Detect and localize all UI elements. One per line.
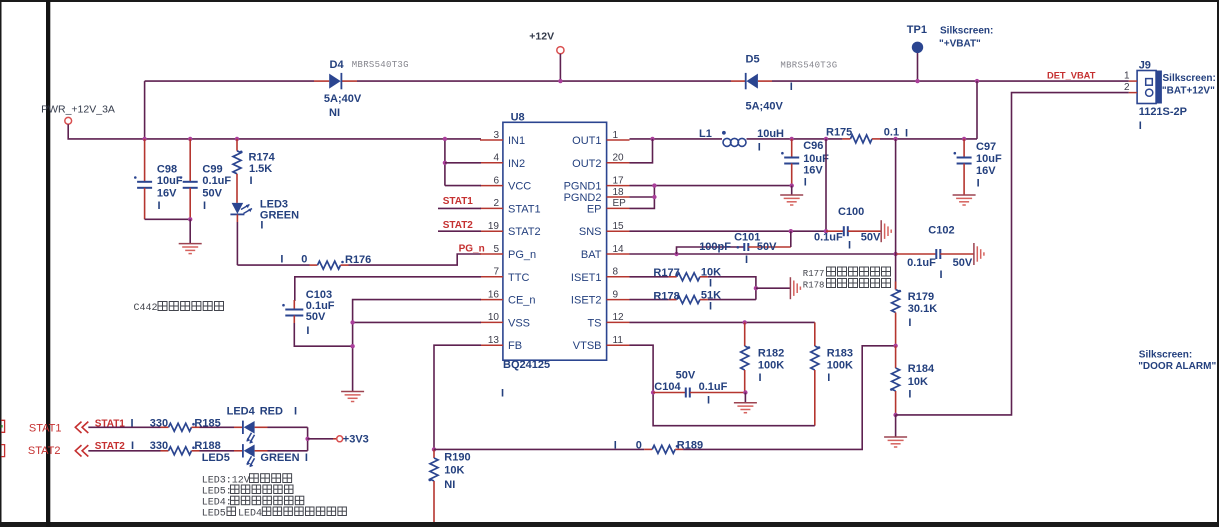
svg-text:13: 13 xyxy=(488,335,500,346)
resistor R179 xyxy=(892,282,902,346)
resistor R176 xyxy=(310,261,349,269)
svg-text:I: I xyxy=(977,178,980,190)
svg-text:TP1: TP1 xyxy=(907,24,927,36)
svg-text:R178: R178 xyxy=(803,281,825,291)
resistor R178 xyxy=(669,295,708,303)
wire STAT2 row xyxy=(88,450,160,452)
svg-text:FB: FB xyxy=(508,340,522,352)
capacitor C101 xyxy=(744,243,791,251)
svg-text:D5: D5 xyxy=(746,53,760,65)
svg-text:EP: EP xyxy=(613,198,627,209)
pin PGND2 18 (U8 right) xyxy=(564,187,630,204)
wire top rail right segment (DET_VBAT net) xyxy=(772,80,1129,82)
svg-text:VTSB: VTSB xyxy=(573,340,602,352)
wire C101 branch xyxy=(677,247,745,254)
junction TP1 xyxy=(915,79,919,83)
svg-text:2: 2 xyxy=(493,198,499,209)
svg-text:I: I xyxy=(790,81,793,93)
wire R175 to C97 riser xyxy=(880,138,977,140)
resistor R182 xyxy=(741,322,751,392)
svg-text:50V: 50V xyxy=(306,311,326,323)
wire C96 to ground xyxy=(791,186,793,195)
svg-text:5A;40V: 5A;40V xyxy=(746,100,784,112)
svg-text:12: 12 xyxy=(613,312,625,323)
pin TTC 7 (U8 left) xyxy=(480,267,529,284)
svg-text:"+VBAT": "+VBAT" xyxy=(939,39,981,50)
svg-text:SNS: SNS xyxy=(579,226,602,238)
wire to input ground xyxy=(189,219,191,243)
svg-text:5: 5 xyxy=(493,244,499,255)
pin ISET1 8 (U8 right) xyxy=(571,267,630,284)
wire divider to J9 pin2 xyxy=(896,93,1129,415)
svg-text:R177: R177 xyxy=(653,267,679,279)
svg-text:GREEN: GREEN xyxy=(260,209,299,221)
wire riser C97 node xyxy=(976,81,978,139)
connector J9 xyxy=(1137,71,1162,104)
svg-text:R176: R176 xyxy=(345,254,371,266)
pin SNS 15 (U8 right) xyxy=(579,221,630,238)
pin 2 (J9) xyxy=(1124,82,1137,93)
svg-text:3: 3 xyxy=(493,130,499,141)
svg-text:100pF: 100pF xyxy=(699,241,731,253)
svg-text:PWR_+12V_3A: PWR_+12V_3A xyxy=(41,104,115,116)
svg-text:50V: 50V xyxy=(861,231,881,243)
junction R182 top xyxy=(743,320,747,324)
svg-text:LED5:: LED5: xyxy=(202,487,232,498)
wire PGND rail xyxy=(630,185,792,187)
svg-text:MBRS540T3G: MBRS540T3G xyxy=(352,60,409,70)
svg-text:R184: R184 xyxy=(908,363,935,375)
svg-text:IN1: IN1 xyxy=(508,135,525,147)
svg-text:LED5: LED5 xyxy=(202,509,226,520)
resistor R175 xyxy=(842,135,880,143)
svg-text:I: I xyxy=(280,254,283,266)
junction SNS-C100 xyxy=(824,229,828,233)
LED LED3 xyxy=(230,203,252,215)
svg-text:14: 14 xyxy=(613,244,625,255)
capacitor C103 xyxy=(282,304,303,323)
svg-text:Silkscreen:: Silkscreen: xyxy=(1163,73,1216,84)
svg-text:4: 4 xyxy=(493,153,499,164)
svg-text:CE_n: CE_n xyxy=(508,295,536,307)
LED LED5 xyxy=(243,444,255,467)
svg-text:0.1uF: 0.1uF xyxy=(814,231,843,243)
junction BAT-C102 xyxy=(893,252,897,256)
wire C98 bottom to C99 bottom xyxy=(145,218,191,220)
wire ISET1 xyxy=(630,276,669,278)
resistor R174 xyxy=(233,139,243,203)
diode D4 xyxy=(329,73,341,89)
wire STAT2 stub xyxy=(438,230,481,232)
junction C99 bottom xyxy=(188,217,192,221)
pin OUT1 1 (U8 right) xyxy=(572,130,629,147)
svg-text:I: I xyxy=(848,239,851,251)
wire VCC branch xyxy=(445,185,481,187)
svg-text:STAT1: STAT1 xyxy=(443,196,474,207)
junction +12V xyxy=(558,79,562,83)
svg-text:LED4: LED4 xyxy=(238,509,262,520)
wire SNS drop xyxy=(825,139,827,231)
inductor L1 xyxy=(723,138,746,146)
svg-text:I: I xyxy=(905,128,908,140)
capacitor C99 xyxy=(180,139,198,219)
wire R189 to divider node xyxy=(683,346,895,450)
svg-text:NI: NI xyxy=(329,107,340,119)
svg-text:16V: 16V xyxy=(157,188,177,200)
svg-text:30.1K: 30.1K xyxy=(908,303,937,315)
port +3V3 xyxy=(337,436,343,442)
resistor R177 xyxy=(669,272,708,280)
wire SNS rail xyxy=(630,230,827,232)
svg-text:J9: J9 xyxy=(1139,59,1151,71)
ground C100 xyxy=(881,220,891,242)
wire C103 bottom xyxy=(294,323,352,346)
pin STAT2 19 (U8 left) xyxy=(480,221,541,238)
svg-text:10uH: 10uH xyxy=(757,128,784,140)
junction PGND1 xyxy=(652,183,656,187)
pin EP EP (U8 right) xyxy=(587,198,630,215)
chevron STAT1 xyxy=(75,422,88,433)
junction IN2 xyxy=(443,161,447,165)
svg-text:10K: 10K xyxy=(908,376,928,388)
svg-text:2: 2 xyxy=(1124,82,1130,93)
svg-text:11: 11 xyxy=(613,335,624,346)
svg-text:PGND1: PGND1 xyxy=(564,181,602,193)
svg-text:R178: R178 xyxy=(653,290,679,302)
pin BAT 14 (U8 right) xyxy=(581,244,630,261)
junction VSS xyxy=(350,320,354,324)
wire ISET join to ground xyxy=(756,287,791,289)
junction C96 xyxy=(790,137,794,141)
junction C104 left xyxy=(651,390,655,394)
offpage bracket STAT2 xyxy=(1,445,4,457)
wire ISET2 xyxy=(630,299,669,301)
wire OUT2 up xyxy=(630,139,653,163)
port PWR_+12V_3A xyxy=(65,117,72,124)
svg-text:C103: C103 xyxy=(306,289,332,301)
svg-text:BAT: BAT xyxy=(581,249,602,261)
pin VCC 6 (U8 left) xyxy=(480,175,531,192)
resistor R184 xyxy=(890,346,899,415)
diode D4 leads xyxy=(314,80,329,82)
junction PGND2 xyxy=(652,195,656,199)
svg-text:R179: R179 xyxy=(908,291,934,303)
wire PGND2 join xyxy=(630,186,655,197)
svg-text:50V: 50V xyxy=(953,257,973,269)
wire LED4 to +3V3 node xyxy=(255,426,268,428)
wire R177 to join xyxy=(708,277,756,300)
svg-text:10uF: 10uF xyxy=(976,153,1002,165)
svg-text:0: 0 xyxy=(301,254,307,266)
svg-text:I: I xyxy=(758,141,761,153)
svg-text:6: 6 xyxy=(493,175,499,186)
junction FB node xyxy=(432,447,436,451)
svg-text:19: 19 xyxy=(488,221,500,232)
wire STAT1 row xyxy=(88,426,160,428)
junction C103 bottom xyxy=(350,344,354,348)
svg-text:C442: C442 xyxy=(134,303,158,314)
svg-text:U8: U8 xyxy=(511,111,525,123)
resistor R183 xyxy=(811,322,821,425)
wire LED5 to +3V3 node xyxy=(255,450,268,452)
diode D5 xyxy=(746,73,758,89)
ground divider xyxy=(884,437,907,447)
capacitor C96 xyxy=(781,139,799,186)
wire TS rail xyxy=(630,321,815,323)
svg-text:18: 18 xyxy=(613,187,625,198)
diode D5 leads xyxy=(731,80,746,82)
wire VTSB rail xyxy=(630,345,815,426)
svg-text:R175: R175 xyxy=(826,127,852,139)
svg-text:I: I xyxy=(709,301,712,313)
svg-text:D4: D4 xyxy=(330,59,345,71)
svg-text:20: 20 xyxy=(613,153,625,164)
wire C101 to SNS xyxy=(790,231,792,247)
svg-text:I: I xyxy=(759,372,762,384)
pin IN2 4 (U8 left) xyxy=(480,153,525,170)
junction R174 xyxy=(235,137,239,141)
svg-text:1121S-2P: 1121S-2P xyxy=(1139,106,1187,118)
svg-text:0: 0 xyxy=(636,439,642,451)
svg-text:LED5: LED5 xyxy=(202,452,230,464)
svg-text:1: 1 xyxy=(1124,70,1130,81)
svg-text:+3V3: +3V3 xyxy=(343,433,369,445)
wire +3V3 node vertical xyxy=(307,427,309,451)
svg-text:16V: 16V xyxy=(976,165,996,177)
svg-text:5A;40V: 5A;40V xyxy=(324,93,362,105)
chevron STAT2 xyxy=(75,445,88,456)
svg-text:+12V: +12V xyxy=(529,31,554,43)
wire STAT1 stub xyxy=(438,207,481,209)
resistor R189 xyxy=(644,445,683,453)
svg-text:ISET2: ISET2 xyxy=(571,295,602,307)
wire R188 to LED5 xyxy=(200,450,235,452)
svg-text:R183: R183 xyxy=(827,347,853,359)
wire top rail left segment xyxy=(145,80,314,82)
svg-text:I: I xyxy=(306,325,309,337)
svg-text:STAT1: STAT1 xyxy=(508,203,541,215)
junction C99 xyxy=(188,137,192,141)
pin ISET2 9 (U8 right) xyxy=(571,289,630,306)
wire L1 to R175 xyxy=(747,138,843,140)
pin 1 (J9) xyxy=(1124,70,1137,81)
pin PGND1 17 (U8 right) xyxy=(564,175,630,192)
wire to +3V3 port xyxy=(308,438,333,440)
port +12V xyxy=(557,47,564,54)
IC U8 BQ24125 body xyxy=(503,122,607,360)
svg-text:I: I xyxy=(131,417,134,429)
junction BAT drop xyxy=(893,137,897,141)
svg-text:17: 17 xyxy=(613,175,625,186)
svg-text:I: I xyxy=(614,439,617,451)
svg-text:50V: 50V xyxy=(757,241,777,253)
svg-text:8: 8 xyxy=(613,267,619,278)
pin VSS 10 (U8 left) xyxy=(480,312,530,329)
svg-text:I: I xyxy=(940,269,943,281)
junction BAT-C101 xyxy=(674,252,678,256)
junction C98 xyxy=(142,137,146,141)
svg-text:R177: R177 xyxy=(803,269,825,279)
svg-text:ISET1: ISET1 xyxy=(571,272,602,284)
wire BAT rail xyxy=(630,253,896,255)
svg-text:OUT1: OUT1 xyxy=(572,135,601,147)
pin OUT2 20 (U8 right) xyxy=(572,153,629,170)
wire R182 bottom to ground xyxy=(744,393,746,403)
ground C103/CE_n/VSS xyxy=(341,392,364,402)
wire CE_n to ground rail xyxy=(353,300,481,392)
svg-text:0.1: 0.1 xyxy=(884,127,899,139)
svg-text:1.5K: 1.5K xyxy=(249,163,272,175)
svg-text:I: I xyxy=(250,175,253,187)
svg-text:Silkscreen:: Silkscreen: xyxy=(940,26,993,37)
svg-text:C100: C100 xyxy=(838,206,864,218)
svg-text:OUT2: OUT2 xyxy=(572,158,601,170)
svg-text:STAT2: STAT2 xyxy=(443,220,474,231)
svg-text:PG_n: PG_n xyxy=(508,249,536,261)
svg-text:C98: C98 xyxy=(157,164,177,176)
svg-text:C99: C99 xyxy=(202,164,222,176)
junction C96 bottom xyxy=(790,183,794,187)
wire FB node to R189 xyxy=(434,448,644,450)
svg-text:C97: C97 xyxy=(976,141,996,153)
resistor R190 xyxy=(429,449,439,522)
svg-text:I: I xyxy=(203,200,206,212)
wire LED3 cathode down xyxy=(236,214,238,222)
wire FB left and down xyxy=(434,345,481,449)
svg-text:VSS: VSS xyxy=(508,317,530,329)
svg-text:STAT1: STAT1 xyxy=(29,423,62,435)
svg-text:RED: RED xyxy=(260,406,283,418)
svg-text:0.1uF: 0.1uF xyxy=(699,381,728,393)
svg-text:TS: TS xyxy=(587,317,601,329)
svg-text:I: I xyxy=(804,177,807,189)
svg-text:R190: R190 xyxy=(444,452,470,464)
svg-text:0.1uF: 0.1uF xyxy=(907,257,936,269)
svg-text:STAT1: STAT1 xyxy=(95,418,126,429)
junction ISET join xyxy=(754,286,758,290)
svg-text:"DOOR ALARM": "DOOR ALARM" xyxy=(1138,361,1216,372)
capacitor C97 xyxy=(954,139,972,195)
svg-text:STAT2: STAT2 xyxy=(28,445,61,457)
junction C101 top xyxy=(789,229,793,233)
svg-text:I: I xyxy=(1139,120,1142,132)
svg-text:I: I xyxy=(707,395,710,407)
wire main rail IN junctions xyxy=(444,139,446,186)
svg-text:10K: 10K xyxy=(444,465,464,477)
pin PG_n 5 (U8 left) xyxy=(480,244,536,261)
svg-text:9: 9 xyxy=(613,289,619,300)
svg-text:I: I xyxy=(827,372,830,384)
svg-text:NI: NI xyxy=(444,479,455,491)
svg-text:Silkscreen:: Silkscreen: xyxy=(1139,349,1192,360)
junction SNS drop xyxy=(824,137,828,141)
svg-text:I: I xyxy=(745,254,748,266)
ground C102 xyxy=(974,243,984,265)
ground ISET xyxy=(790,277,800,299)
pin FB 13 (U8 left) xyxy=(480,335,522,352)
wire LED3 to R176 xyxy=(237,264,309,266)
svg-text:LED4: LED4 xyxy=(227,406,256,418)
svg-text:1: 1 xyxy=(613,130,619,141)
svg-text:I: I xyxy=(260,220,263,232)
resistor R188 xyxy=(161,446,200,454)
svg-text:IN2: IN2 xyxy=(508,158,525,170)
svg-text:TTC: TTC xyxy=(508,272,529,284)
svg-text:I: I xyxy=(709,278,712,290)
svg-text:R182: R182 xyxy=(758,347,784,359)
svg-text:I: I xyxy=(131,440,134,452)
testpoint TP1 xyxy=(912,42,923,53)
junction +3V3 node xyxy=(305,437,309,441)
wire R184 bottom to ground xyxy=(895,415,897,437)
svg-text:BQ24125: BQ24125 xyxy=(503,359,550,371)
junction C97 riser xyxy=(975,79,979,83)
wire TP1 drop xyxy=(917,53,919,81)
ground R182/C104 xyxy=(734,403,757,413)
junction divider mid xyxy=(893,344,897,348)
wire R176 to PG_n pin xyxy=(349,254,482,265)
pin CE_n 16 (U8 left) xyxy=(480,289,536,306)
svg-text:L1: L1 xyxy=(699,128,712,140)
wire VSS branch xyxy=(353,321,481,323)
svg-text:PG_n: PG_n xyxy=(459,244,485,255)
svg-text:I: I xyxy=(908,317,911,329)
pin STAT1 2 (U8 left) xyxy=(480,198,541,215)
LED LED4 xyxy=(243,421,255,444)
junction C97 xyxy=(962,137,966,141)
svg-text:50V: 50V xyxy=(202,188,222,200)
svg-text:C102: C102 xyxy=(928,225,954,237)
svg-text:C104: C104 xyxy=(654,381,681,393)
capacitor C102 xyxy=(896,249,974,259)
ground input caps xyxy=(179,244,202,254)
wire OUT to BAT divider drop xyxy=(895,139,897,290)
svg-text:I: I xyxy=(305,452,308,464)
svg-text:10uF: 10uF xyxy=(157,175,183,187)
junction R184 bottom xyxy=(893,413,897,417)
svg-text:STAT2: STAT2 xyxy=(95,441,126,452)
svg-text:100K: 100K xyxy=(758,359,784,371)
wire +12V port drop xyxy=(559,54,561,81)
svg-text:DET_VBAT: DET_VBAT xyxy=(1047,71,1096,81)
wire OUT1 rail xyxy=(630,138,723,140)
capacitor C104 xyxy=(653,388,745,398)
svg-text:I: I xyxy=(158,200,161,212)
capacitor C98 xyxy=(134,139,152,219)
svg-text:10: 10 xyxy=(488,312,500,323)
pin TS 12 (U8 right) xyxy=(587,312,629,329)
svg-text:I: I xyxy=(908,389,911,401)
svg-text:16: 16 xyxy=(488,289,500,300)
svg-text:15: 15 xyxy=(613,221,625,232)
wire TTC to C103 xyxy=(295,277,481,301)
wire riser to top rail xyxy=(144,81,146,139)
svg-text:MBRS540T3G: MBRS540T3G xyxy=(780,61,837,71)
wire top rail middle segment (+12V net) xyxy=(357,80,731,82)
wire input port to main rail xyxy=(68,124,481,139)
svg-text:16V: 16V xyxy=(803,165,823,177)
capacitor C100 xyxy=(826,226,881,236)
junction C104 right / R182 bottom xyxy=(743,390,747,394)
junction IN1 xyxy=(443,137,447,141)
svg-text:EP: EP xyxy=(587,203,602,215)
svg-text:VCC: VCC xyxy=(508,181,531,193)
svg-text:50V: 50V xyxy=(676,370,696,382)
pin VTSB 11 (U8 right) xyxy=(573,335,630,352)
svg-text:C96: C96 xyxy=(803,140,823,152)
svg-text:I: I xyxy=(294,406,297,418)
pin IN1 3 (U8 left) xyxy=(480,130,525,147)
